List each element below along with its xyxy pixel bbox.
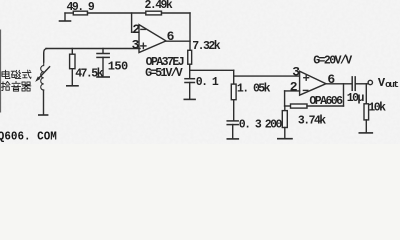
svg-text:G=51V/V: G=51V/V (145, 67, 183, 80)
svg-text:2: 2 (290, 79, 298, 94)
svg-text:49. 9: 49. 9 (67, 1, 95, 14)
svg-text:10k: 10k (368, 101, 386, 114)
svg-text:3: 3 (292, 64, 300, 79)
svg-text:0. 3: 0. 3 (239, 118, 262, 131)
svg-text:OPA606: OPA606 (309, 95, 343, 108)
svg-text:1. 05k: 1. 05k (237, 82, 271, 95)
svg-text:6: 6 (327, 72, 335, 87)
svg-text:out: out (385, 79, 398, 90)
svg-text:3: 3 (132, 37, 140, 52)
svg-text:10µ: 10µ (347, 92, 365, 105)
svg-text:47.5k: 47.5k (75, 67, 103, 80)
svg-text:2.49k: 2.49k (145, 0, 173, 12)
svg-text:3.74k: 3.74k (298, 115, 326, 128)
svg-text:0. 1: 0. 1 (196, 76, 219, 89)
svg-text:7.32k: 7.32k (192, 40, 220, 53)
svg-text:150: 150 (108, 59, 128, 73)
svg-text:2: 2 (132, 22, 140, 37)
svg-text:G=20V/V: G=20V/V (313, 54, 352, 67)
svg-text:200: 200 (265, 118, 283, 131)
svg-text:6: 6 (167, 29, 175, 44)
svg-text:Q606. COM: Q606. COM (0, 129, 57, 143)
